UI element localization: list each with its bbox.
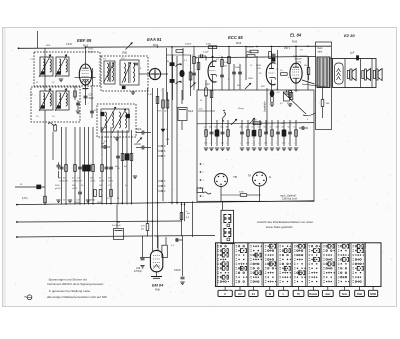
svg-text:50k: 50k	[246, 127, 249, 129]
svg-text:EZ 80: EZ 80	[344, 33, 355, 38]
svg-text:0,2MΩ: 0,2MΩ	[247, 47, 254, 49]
svg-text:4700pF: 4700pF	[134, 271, 142, 273]
svg-text:±10: ±10	[221, 143, 224, 145]
svg-text:Instrument 20kΩ/V ohne Signal: Instrument 20kΩ/V ohne Signal gemessen	[47, 282, 104, 286]
svg-text:EAA 91: EAA 91	[147, 37, 162, 42]
svg-text:5n: 5n	[252, 127, 254, 129]
svg-text:47kΩ: 47kΩ	[206, 43, 212, 45]
svg-text:1n: 1n	[270, 127, 272, 129]
svg-text:∗ gemessen bei Stellung Leise: ∗ gemessen bei Stellung Leise	[49, 289, 91, 293]
svg-text:4700: 4700	[239, 192, 245, 194]
svg-text:Rö6: Rö6	[155, 288, 160, 292]
svg-text:30pF: 30pF	[136, 128, 142, 131]
svg-text:Spannungen und Ströme mit: Spannungen und Ströme mit	[49, 278, 87, 282]
svg-text:Rö2: Rö2	[153, 43, 159, 47]
svg-text:Rö1: Rö1	[83, 44, 89, 48]
svg-text:alle übrigen Meßwerte beziehen: alle übrigen Meßwerte beziehen sich auf …	[47, 295, 107, 299]
svg-text:25n: 25n	[240, 127, 243, 129]
svg-text:Rö5: Rö5	[292, 40, 298, 44]
svg-text:10n: 10n	[220, 127, 223, 129]
svg-text:220nF: 220nF	[134, 143, 141, 146]
svg-text:3,5V: 3,5V	[148, 94, 153, 96]
svg-text:±10%: ±10%	[108, 180, 113, 182]
svg-text:2k: 2k	[200, 100, 202, 102]
svg-text:460Ω: 460Ω	[90, 200, 95, 202]
svg-text:±10: ±10	[282, 143, 285, 145]
svg-text:50+50µF: 50+50µF	[112, 225, 121, 227]
svg-text:10%: 10%	[257, 68, 261, 70]
svg-text:±10: ±10	[264, 143, 267, 145]
svg-text:2MΩ: 2MΩ	[122, 52, 127, 55]
svg-text:1MΩ: 1MΩ	[248, 78, 253, 80]
svg-text:TA: TA	[297, 293, 300, 296]
svg-text:Netz-: Netz-	[318, 47, 324, 50]
svg-text:5nF: 5nF	[94, 110, 98, 112]
svg-text:Jazz: Jazz	[325, 293, 331, 296]
svg-text:220pF: 220pF	[185, 44, 192, 46]
svg-text:EL 84: EL 84	[290, 33, 302, 38]
svg-text:kΩ: kΩ	[224, 66, 227, 68]
svg-text:±10: ±10	[204, 143, 207, 145]
svg-text:W31: W31	[46, 45, 51, 47]
svg-text:NSW: NSW	[370, 293, 376, 296]
svg-text:Bande: Bande	[310, 293, 318, 296]
svg-text:nach „Optimal“: nach „Optimal“	[293, 55, 308, 58]
svg-text:Solo: Solo	[342, 293, 348, 296]
svg-text:85V: 85V	[261, 86, 265, 88]
svg-text:±10%: ±10%	[99, 180, 104, 182]
svg-text:4nF: 4nF	[101, 143, 105, 145]
svg-text:10nF: 10nF	[235, 67, 241, 69]
svg-text:trafo: trafo	[318, 51, 323, 54]
svg-text:±10%: ±10%	[77, 180, 82, 182]
svg-text:250 V: 250 V	[284, 47, 291, 50]
svg-text:C28: C28	[89, 95, 94, 97]
svg-text:Klang: Klang	[238, 108, 244, 110]
svg-text:TA: TA	[248, 174, 252, 178]
svg-text:±10: ±10	[246, 143, 249, 145]
svg-text:EM 84: EM 84	[152, 283, 164, 288]
svg-text:±10%: ±10%	[63, 180, 68, 182]
svg-text:ECC 85: ECC 85	[228, 35, 243, 40]
svg-text:TB: TB	[233, 175, 237, 179]
svg-text:Rö3: Rö3	[236, 41, 242, 45]
svg-text:30pF: 30pF	[89, 98, 95, 100]
svg-text:1kΩ: 1kΩ	[99, 185, 103, 187]
svg-text:50µF: 50µF	[188, 111, 194, 113]
svg-text:±10%: ±10%	[72, 188, 77, 190]
svg-text:±10%: ±10%	[90, 180, 95, 182]
svg-text:U: U	[224, 293, 226, 296]
svg-text:kΩ: kΩ	[141, 229, 144, 231]
svg-text:100nF: 100nF	[174, 269, 181, 272]
svg-text:±10%: ±10%	[294, 90, 299, 92]
svg-text:130V/ca.1mA: 130V/ca.1mA	[282, 198, 297, 201]
svg-text:M: M	[269, 293, 271, 296]
svg-text:5nF: 5nF	[281, 123, 285, 125]
svg-text:1M: 1M	[226, 127, 229, 129]
svg-text:0,23V: 0,23V	[66, 44, 72, 46]
svg-text:6,3V~: 6,3V~	[22, 197, 29, 200]
svg-text:240V∗: 240V∗	[88, 50, 95, 53]
svg-text:k: k	[228, 79, 229, 81]
svg-text:keine Taste gedrückt: keine Taste gedrückt	[266, 225, 293, 229]
svg-text:Ansicht des Drucktastenschalte: Ansicht des Drucktastenschalters von unt…	[257, 220, 314, 224]
svg-text:pF±20: pF±20	[55, 188, 62, 190]
svg-text:EBF 89: EBF 89	[77, 38, 92, 43]
svg-text:Baß: Baß	[357, 293, 362, 296]
svg-text:Lautstärke: Lautstärke	[264, 101, 267, 112]
svg-text:C48: C48	[136, 268, 141, 270]
svg-text:0,1µF: 0,1µF	[203, 52, 209, 54]
svg-text:5n: 5n	[288, 127, 290, 129]
